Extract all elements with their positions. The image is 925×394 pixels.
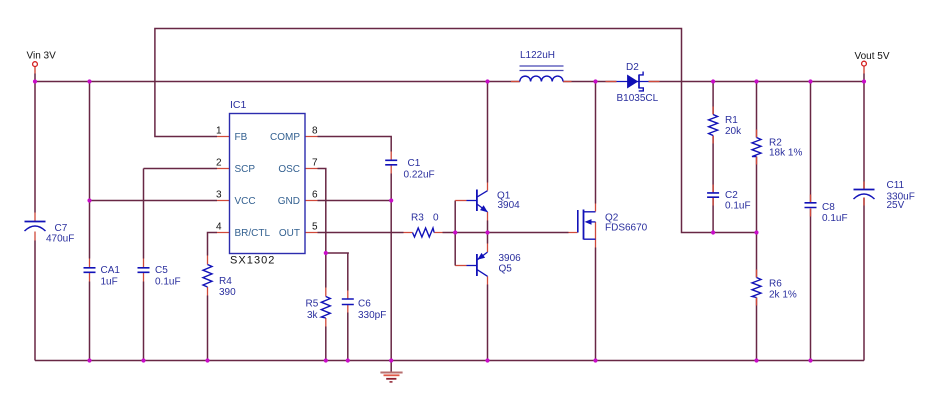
resistor R3 [413, 228, 435, 237]
svg-text:CA1: CA1 [101, 265, 121, 276]
svg-text:0: 0 [433, 213, 439, 224]
pin name OUT [279, 228, 300, 239]
capacitor C6 [342, 299, 354, 305]
svg-text:D2: D2 [626, 62, 639, 73]
pin name SCP [235, 164, 256, 175]
svg-text:SX1302: SX1302 [230, 254, 275, 266]
Q5 labels [499, 253, 522, 275]
svg-text:VCC: VCC [235, 196, 256, 207]
pin 3 number [216, 190, 222, 201]
svg-text:2k 1%: 2k 1% [769, 290, 797, 301]
wire BR/CTL pin4 to R4 [208, 233, 218, 256]
resistor R2 [752, 138, 761, 157]
IC1 op-amp box U1 SX1302 [230, 114, 306, 254]
wire CA1 branch vertical [89, 82, 91, 361]
resistor R1 [709, 115, 718, 136]
pin 2 number [216, 158, 222, 169]
svg-text:Vout 5V: Vout 5V [855, 51, 890, 62]
Vin terminal [33, 62, 38, 67]
svg-text:1: 1 [216, 126, 222, 137]
wire Q2 source to rail [595, 248, 597, 361]
resistor R6 [752, 278, 761, 298]
svg-text:20k: 20k [725, 126, 742, 137]
wire C8 branch [810, 82, 812, 361]
svg-text:C6: C6 [358, 299, 371, 310]
svg-text:1uF: 1uF [101, 277, 118, 288]
capacitor C8 [805, 203, 817, 208]
C8 labels [822, 202, 848, 224]
svg-text:C8: C8 [822, 202, 835, 213]
svg-text:470uF: 470uF [46, 234, 74, 245]
wire FB pin1 net [155, 29, 757, 233]
junction VCC node [87, 198, 91, 202]
R1 labels [725, 115, 742, 137]
svg-text:3906: 3906 [499, 253, 522, 264]
svg-text:C1: C1 [408, 158, 421, 169]
C1 labels [404, 158, 435, 181]
R3 labels [411, 213, 439, 224]
pin 4 number [216, 222, 222, 233]
wire C11 Vout branch [863, 66, 865, 361]
resistor R4 [203, 265, 212, 288]
svg-text:C2: C2 [725, 190, 738, 201]
transistor Q2 NMOS FDS6670 [578, 210, 596, 240]
capacitor C5 [138, 268, 150, 273]
wire COMP pin8 to C1 [318, 137, 392, 152]
wire C6 vertical [347, 253, 349, 361]
svg-text:390: 390 [219, 287, 236, 298]
svg-text:0.1uF: 0.1uF [822, 213, 848, 224]
wire SCP pin2 to C5 branch [144, 168, 218, 170]
svg-text:COMP: COMP [270, 132, 300, 143]
wire D2 cathode to Vout [649, 81, 865, 83]
svg-text:25V: 25V [887, 200, 905, 211]
resistor R5 [321, 297, 330, 319]
R6 labels [769, 279, 797, 301]
Vin 3V label [27, 51, 57, 62]
svg-text:IC1: IC1 [230, 99, 247, 111]
svg-text:C5: C5 [155, 265, 168, 276]
pin name OSC [278, 164, 300, 175]
svg-text:R1: R1 [725, 115, 738, 126]
junction GND C1 node [389, 198, 393, 202]
svg-text:Q5: Q5 [499, 264, 513, 275]
pin name VCC [235, 196, 256, 207]
wire OSC pin7 to R5 C6 [318, 169, 349, 288]
pin name BR/CTL [235, 228, 271, 239]
pin 8 number [312, 126, 318, 137]
svg-text:3: 3 [216, 190, 222, 201]
svg-text:SCP: SCP [235, 164, 256, 175]
junction OSC branch node [324, 251, 328, 255]
junction emitter node [485, 230, 489, 234]
inductor L1 22uH [520, 66, 564, 82]
wire base node to Q5 base [455, 233, 466, 266]
red component leads [35, 82, 864, 327]
transistor Q1 NPN 3904 [467, 190, 488, 213]
Q1 labels [497, 191, 520, 212]
svg-text:7: 7 [312, 158, 318, 169]
C2 labels [725, 190, 751, 212]
ground symbol [380, 361, 402, 382]
junction divider R6 node [754, 230, 758, 234]
wire top rail Vin to L1 [35, 81, 520, 83]
wire R1 C2 branch [712, 82, 714, 233]
IC pin stubs red [217, 137, 318, 233]
pin 5 number [312, 222, 318, 233]
Vout terminal [862, 61, 867, 66]
R4 labels [219, 276, 236, 298]
SX1302 part label [230, 254, 275, 266]
junction base node [453, 230, 457, 234]
svg-text:OSC: OSC [278, 164, 300, 175]
svg-text:R6: R6 [769, 279, 782, 290]
svg-text:0.22uF: 0.22uF [404, 170, 435, 181]
wire base node to Q1 base [455, 201, 466, 233]
D2 labels [617, 62, 659, 104]
svg-text:3k: 3k [307, 310, 319, 321]
junction dots top rail [33, 79, 866, 83]
capacitor C2 [707, 193, 719, 197]
wire R2 R6 branch [756, 82, 758, 361]
wire Q5 collector to rail [487, 285, 489, 361]
wire C5 branch vertical [143, 169, 145, 361]
pin name FB [235, 132, 248, 143]
pin 1 number [216, 126, 222, 137]
svg-text:BR/CTL: BR/CTL [235, 228, 271, 239]
wire C1 bottom to GND line [390, 174, 392, 201]
R2 labels [769, 138, 802, 159]
wire Vin terminal stub [34, 67, 36, 82]
Vout 5V label [855, 51, 890, 62]
R5 labels [306, 299, 319, 322]
pin 7 number [312, 158, 318, 169]
pin name COMP [270, 132, 300, 143]
wire VCC pin3 to CA1 branch [90, 200, 218, 202]
svg-text:GND: GND [278, 196, 300, 207]
svg-text:3904: 3904 [498, 200, 521, 211]
junction dots bottom rail [87, 358, 812, 362]
capacitor C11 polarized [854, 190, 875, 200]
svg-text:4: 4 [216, 222, 222, 233]
svg-text:C7: C7 [55, 223, 68, 234]
svg-text:L122uH: L122uH [520, 50, 555, 61]
C11 labels [887, 180, 915, 211]
svg-text:Vin 3V: Vin 3V [27, 51, 57, 62]
svg-text:0.1uF: 0.1uF [725, 201, 751, 212]
wire GND pin6 line [318, 201, 392, 361]
wire R4 bottom to rail [207, 296, 209, 361]
IC1 designator label [230, 99, 247, 111]
wire Q2 drain to top rail [595, 82, 597, 204]
wire bottom ground rail [35, 360, 864, 362]
svg-text:330pF: 330pF [358, 310, 386, 321]
wire R5 bottom to rail [325, 327, 327, 361]
wire C7 branch vertical [34, 82, 36, 361]
svg-text:R5: R5 [306, 299, 319, 310]
capacitor C7 polarized [25, 222, 46, 232]
wire OUT pin5 to R3 [318, 232, 404, 234]
svg-text:C11: C11 [887, 180, 905, 191]
diode D2 schottky [617, 72, 649, 91]
wire emitter node to gate [488, 221, 569, 244]
svg-text:R4: R4 [219, 276, 232, 287]
C6 labels [358, 299, 386, 322]
C7 labels [46, 223, 74, 245]
pin 6 number [312, 190, 318, 201]
svg-text:R3: R3 [411, 213, 424, 224]
svg-text:6: 6 [312, 190, 318, 201]
C5 labels [155, 265, 181, 288]
svg-text:FB: FB [235, 132, 248, 143]
wire R3 to base node [443, 232, 488, 234]
svg-text:0.1uF: 0.1uF [155, 277, 181, 288]
CA1 labels [101, 265, 121, 288]
transistor Q5 PNP 3906 [467, 252, 488, 276]
svg-text:OUT: OUT [279, 228, 300, 239]
capacitor CA1 [84, 268, 96, 273]
svg-text:18k 1%: 18k 1% [769, 148, 802, 159]
svg-text:2: 2 [216, 158, 222, 169]
svg-text:8: 8 [312, 126, 318, 137]
capacitor C1 [385, 160, 397, 165]
wire Q1 collector to top rail [487, 82, 489, 183]
L1 label [520, 50, 555, 61]
wire L1 to D2 anode [563, 81, 617, 83]
junction divider C2 node [711, 230, 715, 234]
Q2 labels [605, 213, 648, 234]
pin name GND [278, 196, 300, 207]
svg-text:FDS6670: FDS6670 [605, 223, 648, 234]
svg-text:B1035CL: B1035CL [617, 93, 659, 104]
svg-text:5: 5 [312, 222, 318, 233]
